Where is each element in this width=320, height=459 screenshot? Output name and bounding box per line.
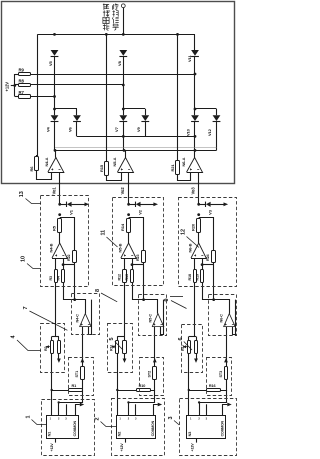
resistor R7 bbox=[19, 95, 31, 99]
wire to R1 bbox=[52, 390, 69, 392]
wire V7 feed bbox=[123, 109, 125, 115]
wire V10 to L2 bbox=[194, 122, 196, 151]
pot tee R11 bbox=[117, 336, 124, 338]
wire R7 row bbox=[31, 96, 55, 98]
svg-text:N4-A: N4-A bbox=[44, 157, 49, 166]
diode V5 bbox=[51, 50, 59, 56]
svg-text:+12V: +12V bbox=[5, 82, 10, 92]
svg-text:Vo2: Vo2 bbox=[120, 187, 125, 195]
svg-text:8: 8 bbox=[95, 289, 101, 292]
wire output net to N-C stage bbox=[144, 300, 158, 314]
wire pair tee C bbox=[195, 108, 217, 110]
pot tee R2 bbox=[52, 336, 59, 338]
diode V6 bbox=[73, 115, 81, 121]
wire to R10 bbox=[117, 390, 136, 392]
node R9-V11 bbox=[194, 73, 197, 76]
node bus-R21 bbox=[176, 33, 179, 36]
op-amp N5-C bbox=[152, 314, 164, 328]
wire V4 to L2 bbox=[54, 122, 56, 151]
svg-text:ST2: ST2 bbox=[148, 371, 152, 378]
svg-text:R22: R22 bbox=[67, 254, 71, 261]
wire R2 right to ground arrow bbox=[58, 353, 60, 358]
node 2 dot1 bbox=[197, 203, 200, 206]
dashed box trimmer C bbox=[207, 358, 232, 396]
wire R15 to N5-A inverting input bbox=[107, 172, 122, 181]
wire 0 coil branch bbox=[60, 204, 67, 206]
op-amp N6-B bbox=[198, 233, 200, 244]
chip N3 +12V pin bbox=[196, 438, 198, 442]
svg-text:N4-C: N4-C bbox=[76, 314, 80, 323]
op-amp N4-B bbox=[59, 233, 61, 244]
svg-text:R20: R20 bbox=[190, 223, 195, 231]
wiper arrow R2 bbox=[46, 346, 50, 348]
svg-text:10: 10 bbox=[21, 256, 27, 262]
wire R23 to input bbox=[143, 262, 145, 265]
diode V7 bbox=[119, 115, 127, 121]
dashed box amplifier group B bbox=[113, 198, 164, 286]
driver chip N2 bbox=[117, 416, 156, 439]
chip N2 +12V pin bbox=[125, 438, 127, 442]
wire R23 down to output net bbox=[143, 265, 145, 300]
svg-text:V12: V12 bbox=[207, 128, 212, 136]
svg-text:N3: N3 bbox=[188, 432, 192, 437]
wire R6 to N4-A inverting input bbox=[37, 171, 52, 180]
svg-text:R8: R8 bbox=[19, 78, 25, 83]
wire Vo3 output bbox=[198, 172, 200, 204]
dashed box N4-C stage bbox=[72, 294, 100, 335]
wire 2 coil branch bbox=[199, 204, 206, 206]
wire 1 coil branch bbox=[129, 204, 136, 206]
potentiometer R11 right element bbox=[124, 337, 126, 341]
wire N4-A output to L2 bbox=[55, 150, 57, 157]
node L2-A bbox=[54, 149, 57, 152]
svg-text:ST3: ST3 bbox=[219, 371, 223, 378]
chip N2 pin stubs bbox=[128, 402, 130, 415]
wire V9 to L1 bbox=[145, 122, 147, 137]
wire R3 to potentiometer bbox=[55, 282, 57, 337]
svg-text:R21: R21 bbox=[170, 164, 175, 172]
wire N6-A output to L2 bbox=[194, 150, 196, 157]
resistor R10 bbox=[137, 389, 151, 392]
wire N-C left input to ST2 bbox=[154, 327, 156, 363]
wire R12 to potentiometer bbox=[124, 282, 126, 337]
node bus-R15 bbox=[105, 33, 108, 36]
svg-text:Vo3: Vo3 bbox=[190, 187, 195, 195]
wire R8 row bbox=[31, 84, 123, 86]
wire clamp line L1 bbox=[77, 136, 195, 138]
main driver box (solid border) bbox=[2, 2, 235, 184]
wire Vo2 output bbox=[128, 172, 130, 204]
node 0 dot1 bbox=[58, 203, 61, 206]
resistor R22 feedback bbox=[73, 251, 77, 263]
pot tee R17 bbox=[189, 336, 196, 338]
op-amp N5-B bbox=[128, 233, 130, 244]
svg-text:R15: R15 bbox=[99, 164, 104, 172]
node 2 dot2 bbox=[197, 213, 200, 216]
dashed box potentiometer B bbox=[108, 324, 133, 373]
label 磁铁驱动控制信号 (drawn as vector glyphs) bbox=[103, 4, 109, 10]
control signal input terminal bbox=[121, 4, 125, 8]
node R7-V5 bbox=[53, 95, 56, 98]
wire V4 feed bbox=[54, 109, 56, 115]
wire R24 down to output net bbox=[213, 265, 215, 300]
op-amp N5-A bbox=[118, 158, 134, 173]
wire stub to R9 bbox=[15, 74, 19, 76]
wiper arrow R17 bbox=[183, 346, 187, 348]
wire R2 left down to R1 bbox=[51, 353, 53, 390]
resistor R16 bbox=[207, 389, 221, 392]
wire 2 feedback branch bbox=[199, 218, 214, 251]
svg-text:1: 1 bbox=[26, 416, 32, 419]
resistor R15 bbox=[106, 34, 108, 161]
arrow 1 to coil bbox=[153, 202, 158, 206]
svg-text:9: 9 bbox=[164, 299, 170, 302]
wire V7 to L2 bbox=[123, 122, 125, 151]
trimmer ST2 bbox=[154, 363, 156, 366]
wire R24 to input bbox=[213, 262, 215, 265]
svg-text:+12V: +12V bbox=[50, 443, 54, 452]
diode V8 bbox=[119, 50, 127, 56]
diode V2 bbox=[135, 202, 137, 207]
resistor R18 bbox=[194, 270, 197, 283]
svg-text:R12: R12 bbox=[118, 274, 122, 281]
svg-text:R3: R3 bbox=[49, 276, 53, 281]
wire N-C left input to ST1 bbox=[82, 327, 84, 363]
svg-text:R6: R6 bbox=[29, 166, 34, 172]
dashed box trimmer A bbox=[69, 358, 94, 396]
svg-text:N6-C: N6-C bbox=[220, 314, 224, 323]
wire ST1 to R1 bbox=[82, 379, 85, 390]
svg-text:R7: R7 bbox=[19, 90, 25, 95]
node 0 dot2 bbox=[58, 213, 61, 216]
wire 1 feedback branch bbox=[129, 218, 144, 251]
node 1 dot1 bbox=[127, 203, 130, 206]
wire ST3 node down to chip bbox=[199, 390, 226, 403]
resistor R1 bbox=[69, 389, 83, 392]
dashed box N5-C stage bbox=[139, 295, 167, 336]
svg-text:COMMON: COMMON bbox=[151, 420, 155, 436]
diode V4 bbox=[51, 115, 59, 121]
trimmer ST1 bbox=[82, 363, 84, 366]
svg-text:V10: V10 bbox=[186, 128, 191, 136]
resistor R12 bbox=[123, 270, 127, 283]
wire N-C feedback loop bbox=[233, 300, 236, 335]
wire stub to R7 bbox=[15, 96, 19, 98]
wire R4 to output net bbox=[64, 282, 75, 300]
potentiometer R11 left element bbox=[117, 337, 119, 341]
svg-text:N6-B: N6-B bbox=[188, 243, 193, 252]
svg-text:R19: R19 bbox=[195, 274, 199, 281]
resistor R9 bbox=[19, 73, 31, 76]
svg-text:R1: R1 bbox=[72, 384, 77, 388]
svg-text:ST1: ST1 bbox=[75, 371, 79, 378]
wire input terminal to bus bbox=[123, 8, 125, 35]
resistor R24 feedback bbox=[212, 251, 216, 263]
op-amp N4-A bbox=[48, 158, 64, 173]
wire pair tee A bbox=[55, 108, 78, 110]
wire V8 column bbox=[123, 57, 125, 109]
diode V1 bbox=[66, 202, 68, 207]
wire R17 right to ground arrow bbox=[196, 353, 198, 358]
resistor R4 bbox=[62, 270, 65, 283]
wire V9 feed bbox=[145, 109, 147, 115]
op-amp N6-C bbox=[224, 314, 236, 328]
svg-text:7: 7 bbox=[23, 307, 29, 310]
svg-text:COMMON: COMMON bbox=[221, 420, 225, 436]
wire ST3 to R16 bbox=[220, 379, 226, 390]
wire 2 left input bbox=[194, 258, 196, 270]
wire 1 right input bbox=[132, 258, 134, 270]
chip N1 +12V pin bbox=[55, 438, 57, 442]
wire Vo1 output bbox=[59, 172, 61, 204]
svg-text:R5: R5 bbox=[51, 225, 56, 231]
wire N5-A output to L2 bbox=[125, 150, 127, 157]
wire V5 column bbox=[54, 57, 56, 109]
potentiometer R2 right element bbox=[58, 337, 60, 341]
svg-text:+12V: +12V bbox=[120, 443, 124, 452]
node L1-V7 bbox=[122, 135, 125, 138]
dashed box driver A bbox=[42, 400, 95, 456]
svg-text:N5-A: N5-A bbox=[112, 157, 117, 166]
wire V11 column bbox=[194, 57, 196, 109]
wire V6 feed bbox=[76, 109, 78, 115]
wire bus right leg to V11 bbox=[194, 34, 196, 50]
wire bus left leg to R6 bbox=[37, 34, 39, 157]
chip N3 output arrow pin bbox=[223, 405, 228, 416]
arrow ST3 sense bbox=[224, 358, 228, 362]
dashed box potentiometer C bbox=[182, 325, 203, 373]
wire ST2 node down to chip bbox=[129, 390, 155, 403]
wire N-C left input to ST3 bbox=[226, 327, 228, 363]
dashed box amplifier group C bbox=[179, 198, 237, 287]
svg-text:5: 5 bbox=[109, 338, 115, 341]
svg-text:11: 11 bbox=[101, 230, 107, 236]
svg-text:3: 3 bbox=[168, 417, 174, 420]
resistor R8 bbox=[19, 84, 31, 87]
resistor R6 bbox=[36, 155, 38, 157]
arrow ST2 sense bbox=[153, 358, 157, 362]
svg-text:R18: R18 bbox=[188, 274, 192, 281]
potentiometer R17 right element bbox=[196, 337, 198, 341]
op-amp N6-A bbox=[187, 158, 203, 173]
arrow 2 to coil bbox=[224, 202, 229, 206]
wire clamp line L2 bbox=[55, 150, 217, 152]
wire input bus bbox=[37, 34, 195, 36]
wire R19 to output net bbox=[203, 282, 214, 300]
wire R11 right to ground arrow bbox=[124, 353, 126, 358]
resistor R19 bbox=[201, 270, 204, 283]
wire pot to chip pin 1 bbox=[51, 390, 53, 416]
wire N-C feedback loop bbox=[89, 300, 92, 335]
dashed box trimmer B bbox=[140, 358, 164, 396]
wire 0 left input bbox=[55, 258, 57, 270]
wire V10 feed bbox=[194, 109, 196, 115]
wire R13 to output net bbox=[133, 282, 144, 300]
chip N1 output arrow pin bbox=[76, 405, 80, 416]
chip N2 output arrow pin bbox=[154, 405, 158, 416]
node L1-V10 bbox=[194, 135, 197, 138]
diode V11 bbox=[191, 50, 199, 56]
svg-text:R11: R11 bbox=[110, 345, 114, 351]
arrow ST1 sense bbox=[81, 358, 85, 362]
wire ST1 node down to chip bbox=[59, 390, 83, 403]
wiper arrow R11 bbox=[112, 346, 116, 348]
wire output net to N-C stage bbox=[214, 300, 230, 314]
resistor R3 bbox=[55, 270, 58, 283]
svg-text:R13: R13 bbox=[125, 274, 129, 281]
diode V10 bbox=[191, 115, 199, 121]
wire clamp line L2 upper bbox=[55, 147, 217, 149]
dashed box potentiometer A bbox=[41, 324, 65, 373]
svg-text:12: 12 bbox=[181, 229, 187, 235]
svg-text:V11: V11 bbox=[187, 55, 192, 62]
wire ST2 to R10 bbox=[150, 379, 154, 390]
potentiometer R17 left element bbox=[188, 337, 190, 341]
wire V6 to L1 bbox=[76, 122, 78, 137]
svg-text:N4-B: N4-B bbox=[49, 243, 54, 252]
wire V12 to L2 bbox=[216, 122, 218, 151]
wire R22 to input bbox=[74, 262, 76, 265]
wire R18 to potentiometer bbox=[194, 282, 196, 337]
wire stub to R8 bbox=[15, 84, 19, 86]
wire 1 left input bbox=[124, 258, 126, 270]
chip N3 pin stubs bbox=[199, 402, 201, 415]
svg-text:R9: R9 bbox=[19, 67, 25, 72]
wire output net to N-C stage bbox=[75, 300, 86, 314]
svg-text:6: 6 bbox=[178, 338, 184, 341]
dashed box driver B bbox=[112, 399, 165, 456]
dashed box driver C bbox=[180, 399, 237, 456]
potentiometer R2 left element bbox=[51, 337, 53, 341]
wire R21 to N6-A inverting input bbox=[178, 172, 191, 181]
svg-text:13: 13 bbox=[19, 191, 25, 197]
node 1 dot2 bbox=[127, 213, 130, 216]
svg-text:N2: N2 bbox=[117, 432, 121, 437]
wire R11 left down to R10 bbox=[117, 353, 119, 390]
resistor R23 feedback bbox=[142, 251, 146, 263]
resistor R14 bbox=[127, 219, 131, 233]
svg-text:COMMON: COMMON bbox=[73, 420, 77, 436]
driver chip N3 bbox=[187, 416, 226, 439]
node R8-V8 bbox=[122, 84, 125, 87]
svg-text:N5-C: N5-C bbox=[148, 314, 152, 323]
wire +12V vertical bus bbox=[14, 74, 16, 97]
wire pot to chip pin 1 bbox=[188, 390, 190, 416]
node L2-B bbox=[123, 149, 126, 152]
wire 2 right input bbox=[202, 258, 204, 270]
svg-text:Vo1: Vo1 bbox=[51, 187, 56, 195]
wire to R16 bbox=[189, 390, 207, 392]
svg-text:N6-A: N6-A bbox=[181, 157, 186, 166]
wire R9 row bbox=[31, 74, 195, 76]
op-amp N4-C bbox=[80, 314, 92, 328]
svg-text:2: 2 bbox=[95, 418, 101, 421]
node bus-V5 bbox=[53, 33, 56, 36]
driver chip N1 bbox=[47, 416, 79, 439]
wire pot to chip pin 1 bbox=[117, 390, 119, 416]
wire N-C feedback loop bbox=[161, 300, 164, 335]
resistor R21 bbox=[177, 34, 179, 161]
node bus-input bbox=[122, 33, 125, 36]
svg-text:R16: R16 bbox=[209, 384, 216, 388]
chip N1 pin stubs bbox=[58, 402, 60, 415]
svg-text:R14: R14 bbox=[120, 223, 125, 231]
wire R22 down to output net bbox=[74, 265, 76, 300]
svg-text:N5-B: N5-B bbox=[117, 243, 122, 252]
diode V12 bbox=[213, 115, 221, 121]
wire V12 feed bbox=[216, 109, 218, 115]
wire pair tee B bbox=[123, 108, 145, 110]
dashed box N6-C stage bbox=[209, 295, 237, 336]
dashed box amplifier group A bbox=[41, 196, 89, 287]
resistor R20 bbox=[197, 219, 201, 233]
trimmer ST3 bbox=[226, 363, 228, 366]
diode V9 bbox=[141, 115, 149, 121]
diode V3 bbox=[205, 202, 207, 207]
node L2-C bbox=[194, 149, 197, 152]
resistor R5 bbox=[58, 219, 62, 233]
svg-text:N1: N1 bbox=[48, 432, 52, 437]
wire 0 feedback branch bbox=[60, 218, 75, 251]
arrow 0 to coil bbox=[85, 202, 90, 206]
wire 0 right input bbox=[63, 258, 65, 270]
svg-text:R24: R24 bbox=[206, 253, 210, 261]
wire R17 left down to R16 bbox=[188, 353, 190, 390]
svg-text:+12V: +12V bbox=[190, 443, 194, 452]
resistor R13 bbox=[131, 270, 134, 283]
svg-text:R23: R23 bbox=[136, 254, 140, 261]
